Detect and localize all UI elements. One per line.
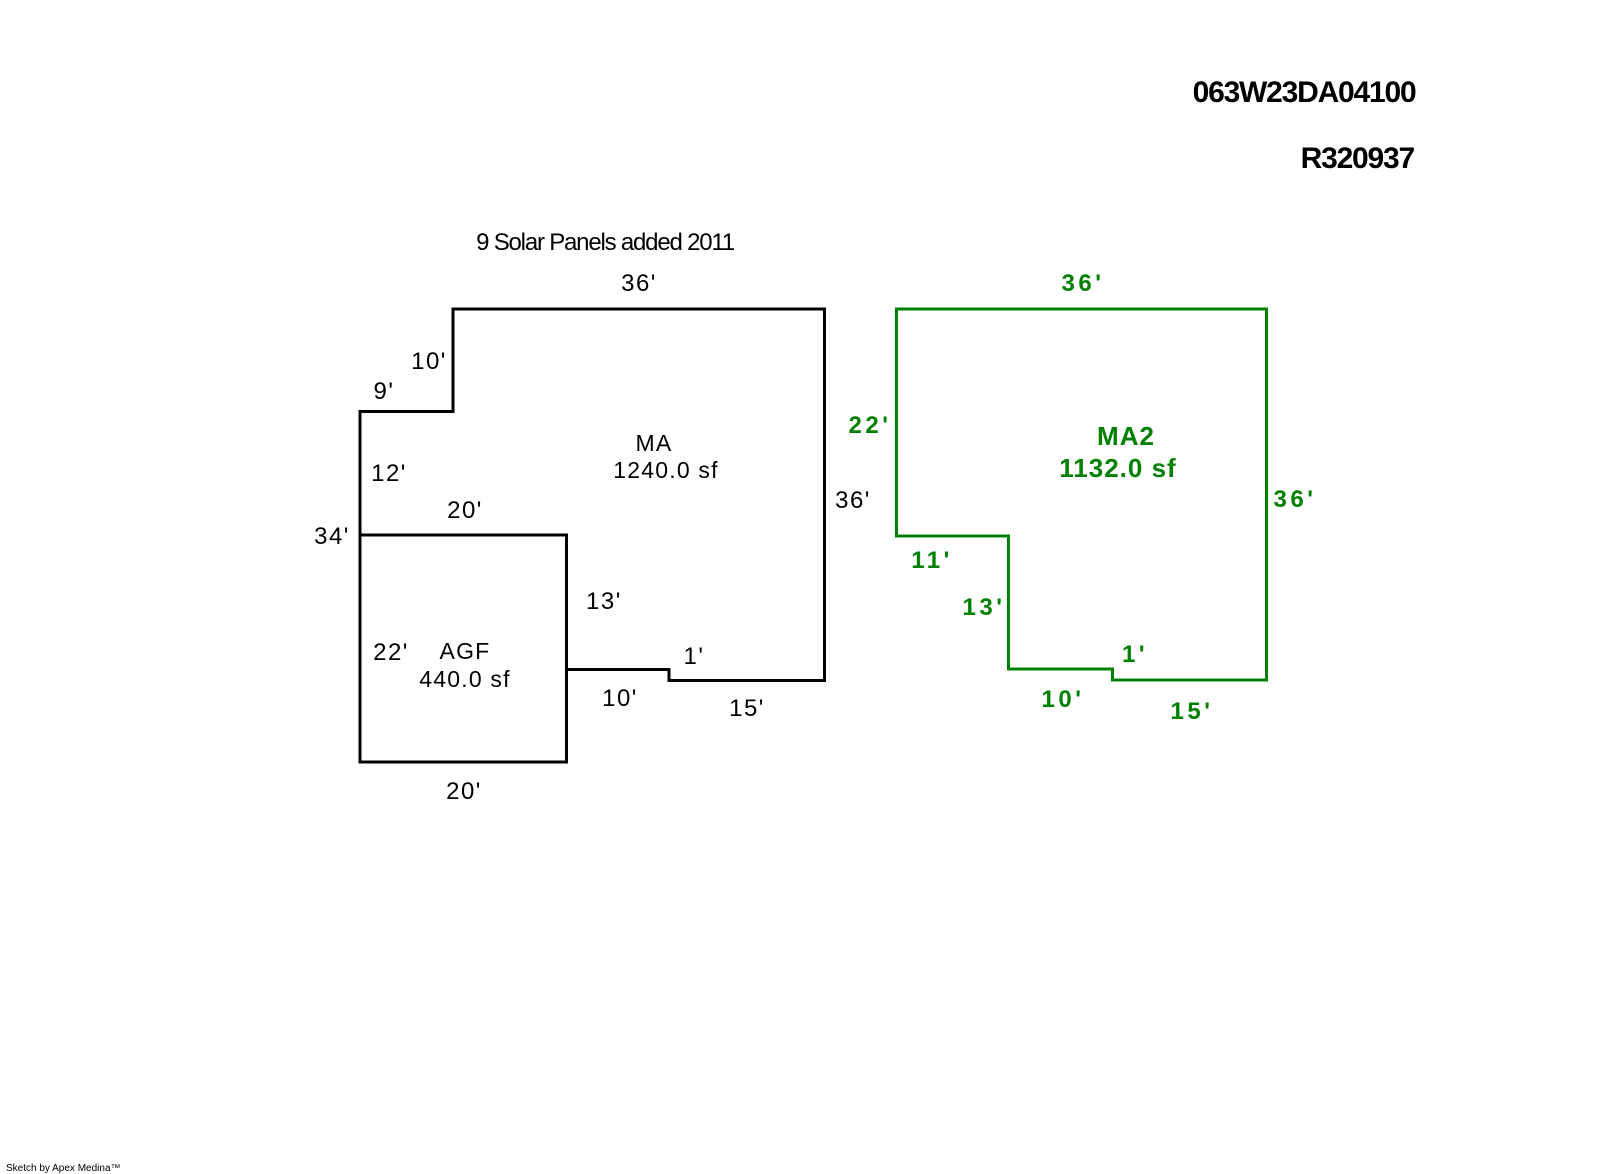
svg-text:R320937: R320937 [1301,142,1415,175]
svg-text:20': 20' [446,778,482,805]
svg-text:9 Solar Panels added 2011: 9 Solar Panels added 2011 [476,229,735,256]
svg-text:440.0 sf: 440.0 sf [419,666,510,692]
svg-text:15': 15' [1171,698,1214,725]
svg-text:1': 1' [684,643,705,670]
svg-text:20': 20' [447,497,483,524]
svg-text:12': 12' [371,460,407,487]
MA2 outline (green polygon) [897,309,1267,680]
svg-text:063W23DA04100: 063W23DA04100 [1193,76,1416,109]
svg-text:11': 11' [911,547,953,574]
svg-text:10': 10' [411,348,447,375]
svg-text:13': 13' [586,588,622,615]
svg-text:Sketch by Apex Medina™: Sketch by Apex Medina™ [6,1163,121,1174]
svg-text:10': 10' [602,685,638,712]
svg-text:1132.0 sf: 1132.0 sf [1059,453,1176,483]
svg-text:34': 34' [314,523,350,550]
svg-text:36': 36' [835,487,871,514]
svg-text:9': 9' [374,378,395,405]
MA outline (black polygon) [360,309,825,681]
svg-text:1240.0 sf: 1240.0 sf [613,457,718,483]
svg-text:36': 36' [621,270,657,297]
svg-text:15': 15' [729,695,765,722]
svg-text:MA: MA [636,430,673,456]
svg-text:10': 10' [1042,686,1085,713]
svg-text:36': 36' [1274,486,1317,513]
svg-text:36': 36' [1062,270,1105,297]
svg-text:22': 22' [373,639,409,666]
svg-text:13': 13' [963,594,1006,621]
svg-text:MA2: MA2 [1097,421,1155,451]
svg-text:1': 1' [1122,641,1148,668]
AGF outline (black rectangle) [360,535,567,762]
svg-text:22': 22' [849,412,892,439]
svg-text:AGF: AGF [440,638,491,664]
